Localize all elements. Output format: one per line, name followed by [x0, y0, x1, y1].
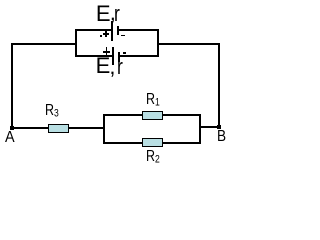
node A junction dot [10, 126, 14, 130]
battery cell bottom: long positive plate [112, 47, 114, 65]
label R3 [45, 103, 59, 119]
battery cell bottom: minus sign [123, 52, 126, 54]
battery cell bottom: short negative plate [118, 52, 120, 62]
resistor R3 body [48, 124, 69, 133]
wire: parallel block left edge [103, 114, 105, 144]
battery cell bottom: plus sign [103, 51, 110, 53]
wire: bottom from node A to resistor R3 [11, 127, 49, 129]
wire: R1 branch rail [103, 114, 201, 116]
wire: battery block right edge [157, 29, 159, 57]
resistor R1 body [142, 111, 164, 120]
battery cell top: stray dot before plus [100, 35, 102, 37]
wire: bottom from R3 to parallel block [69, 127, 105, 129]
label comma (top battery) [110, 2, 116, 24]
wire: top rail right segment from battery short plate [119, 29, 160, 31]
wire: bottom rail left segment to battery long plate [75, 55, 112, 57]
wire: top rail left segment to battery long plate [75, 29, 111, 31]
resistor R2 body [142, 138, 164, 147]
battery cell top: long positive plate [111, 21, 113, 41]
node label B [217, 129, 226, 145]
label E (top battery) [96, 3, 111, 25]
node label A [5, 130, 15, 146]
wire: top-left horizontal to battery block [11, 43, 77, 45]
label E (bottom battery) [96, 55, 111, 77]
wire: right vertical down to node B [218, 43, 220, 128]
battery cell top: short negative plate [117, 26, 119, 35]
wire: top-right horizontal from battery block [157, 43, 220, 45]
wire: R2 branch rail [103, 142, 201, 144]
wire: parallel block right edge [199, 114, 201, 144]
wire: bottom rail right segment from battery short plate [120, 55, 160, 57]
battery cell top: minus sign [121, 35, 124, 37]
label R1 [146, 92, 160, 108]
battery cell top: plus sign [103, 33, 109, 35]
label r (bottom battery) [117, 56, 123, 78]
wire: left vertical from top loop down to node A [11, 43, 13, 129]
label comma (bottom battery) [109, 56, 115, 78]
label r (top battery) [114, 3, 120, 25]
wire: bottom from parallel block to node B [199, 126, 220, 128]
node B junction dot [217, 125, 221, 129]
label R2 [146, 149, 160, 165]
wire: battery block left edge [75, 29, 77, 57]
